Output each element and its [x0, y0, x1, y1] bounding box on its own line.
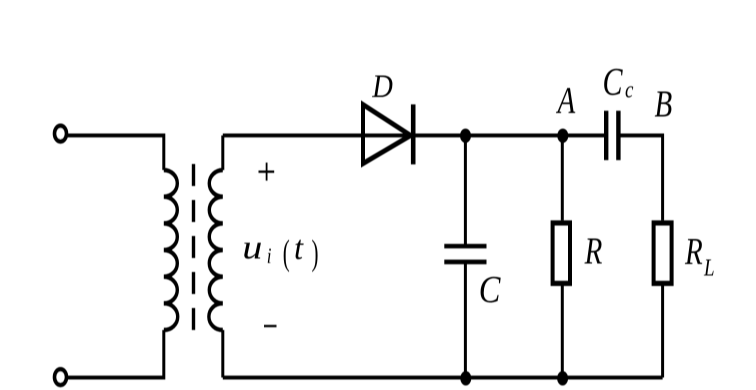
svg-text:t: t [294, 229, 304, 267]
svg-text:C: C [603, 60, 624, 104]
svg-text:L: L [703, 253, 714, 281]
svg-text:A: A [556, 81, 576, 122]
svg-text:D: D [371, 67, 393, 104]
svg-text:(: ( [283, 234, 290, 273]
svg-text:R: R [684, 231, 703, 272]
svg-text:C: C [479, 269, 501, 311]
svg-text:R: R [584, 231, 603, 272]
svg-text:i: i [267, 244, 272, 269]
svg-text:c: c [625, 75, 634, 103]
svg-text:): ) [312, 234, 319, 273]
svg-text:u: u [242, 229, 262, 266]
svg-text:B: B [655, 84, 673, 125]
